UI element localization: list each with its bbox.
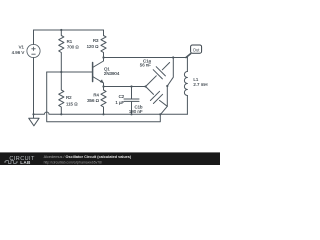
capacitor C2 — [124, 87, 139, 115]
node tank mid M — [145, 85, 147, 87]
svg-text:R3: R3 — [93, 38, 99, 43]
svg-text:120 Ω: 120 Ω — [87, 44, 99, 49]
labels — [12, 38, 208, 114]
transistor Q1 — [92, 63, 94, 82]
wire out tail — [186, 54, 191, 58]
svg-text:R2: R2 — [66, 95, 72, 100]
svg-text:R4: R4 — [93, 93, 99, 98]
svg-text:2.7 mH: 2.7 mH — [193, 82, 207, 87]
resistor R1 — [59, 30, 64, 72]
ground — [29, 114, 39, 126]
watermark bar — [0, 152, 220, 165]
node base — [60, 71, 62, 73]
svg-text:1 µF: 1 µF — [115, 100, 124, 105]
resistor R3 — [101, 30, 106, 58]
wire top rail — [34, 29, 104, 31]
svg-text:R1: R1 — [67, 39, 73, 44]
node R2 bottom — [60, 113, 62, 115]
svg-text:2N3904: 2N3904 — [104, 71, 120, 76]
node rail feedback — [159, 113, 161, 115]
node rail V1 — [32, 113, 34, 115]
wire collector rail — [104, 57, 188, 59]
capacitor C1b — [146, 87, 168, 115]
wire ground rail with hop — [34, 112, 188, 114]
svg-text:180 nF: 180 nF — [129, 109, 143, 114]
svg-text:http://circuitlab.com/c/q/hama: http://circuitlab.com/c/q/hamaxwb5v78/ — [44, 160, 102, 164]
wire emitter — [104, 86, 146, 88]
node C2 top — [130, 85, 132, 87]
node emitter — [102, 85, 104, 87]
out flag Out — [191, 45, 202, 53]
svg-text:4.96 V: 4.96 V — [12, 50, 25, 55]
node junction top of R1 — [60, 29, 62, 31]
svg-text:LAB: LAB — [20, 160, 31, 165]
wire base — [47, 71, 93, 73]
node R4 bottom — [102, 113, 104, 115]
wire V1 top lead — [33, 30, 35, 45]
node C2 bottom — [130, 113, 132, 115]
svg-text:356 Ω: 356 Ω — [87, 98, 99, 103]
node tank right — [166, 85, 168, 87]
wire feedback — [47, 72, 161, 122]
wire V1 bottom lead — [33, 58, 35, 115]
node tank top — [172, 56, 174, 58]
inductor L1 — [186, 58, 188, 72]
logo squiggle — [4, 161, 18, 164]
svg-text:Alcedemus / Oscillator Circuit: Alcedemus / Oscillator Circuit (calculat… — [44, 155, 132, 159]
capacitor C1a — [146, 63, 170, 87]
node R3 bottom / collector — [102, 56, 104, 58]
wire tank right drop — [166, 86, 168, 106]
voltage source V1 — [27, 44, 40, 57]
resistor R2 — [59, 72, 64, 114]
svg-text:56 nF: 56 nF — [140, 63, 152, 68]
svg-text:700 Ω: 700 Ω — [67, 44, 79, 49]
resistor R4 — [101, 87, 106, 115]
svg-text:Out: Out — [193, 47, 201, 52]
svg-text:V1: V1 — [19, 44, 25, 49]
svg-text:115 Ω: 115 Ω — [66, 102, 78, 107]
svg-text:C2: C2 — [119, 94, 125, 99]
wire tank top drop — [167, 58, 173, 87]
